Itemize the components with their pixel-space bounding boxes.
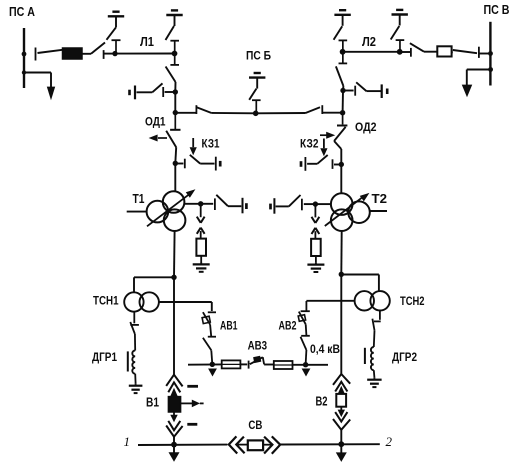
svg-text:АВ3: АВ3 [248,339,268,353]
svg-text:ТСН1: ТСН1 [93,294,119,308]
svg-text:1: 1 [124,434,131,449]
svg-text:2: 2 [386,434,393,449]
svg-text:В2: В2 [316,395,328,409]
svg-text:АВ2: АВ2 [279,319,297,333]
svg-text:Л2: Л2 [362,34,376,49]
svg-text:КЗ1: КЗ1 [202,139,221,151]
svg-text:ТСН2: ТСН2 [400,294,425,308]
svg-text:АВ1: АВ1 [220,319,238,333]
svg-text:ОД1: ОД1 [145,115,166,129]
svg-text:СВ: СВ [248,420,262,432]
svg-text:ДГР1: ДГР1 [92,350,117,364]
svg-text:Т1: Т1 [133,191,145,206]
svg-text:ПС А: ПС А [9,5,35,19]
svg-text:0,4 кВ: 0,4 кВ [310,342,340,356]
svg-text:Т2: Т2 [372,191,388,206]
svg-text:ПС Б: ПС Б [246,51,271,63]
svg-text:КЗ2: КЗ2 [300,139,319,151]
svg-text:Л1: Л1 [140,34,154,49]
svg-text:ПС В: ПС В [484,3,510,17]
svg-text:В1: В1 [146,396,159,410]
svg-text:ОД2: ОД2 [355,120,377,134]
svg-text:ДГР2: ДГР2 [392,350,417,364]
